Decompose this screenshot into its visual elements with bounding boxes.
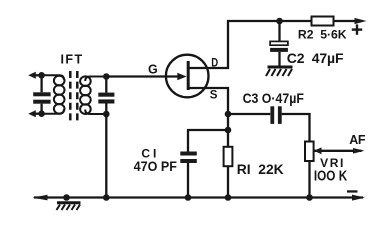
svg-text:R2 5·6K: R2 5·6K — [298, 28, 347, 42]
wire: gate wire — [106, 75, 178, 77]
node: drain rail / C2 junction — [276, 18, 283, 25]
resistor R1 — [224, 147, 233, 166]
input terminal arrow (bottom) — [28, 110, 42, 117]
IFT primary tuning capacitor — [33, 75, 50, 113]
svg-text:IOO K: IOO K — [314, 168, 348, 184]
potentiometer VR1 — [305, 142, 314, 198]
node (secondary bottom) — [103, 111, 110, 118]
node (primary top) — [38, 72, 45, 79]
svg-text:47O PF: 47O PF — [134, 158, 178, 174]
svg-text:RI 22K: RI 22K — [237, 161, 284, 177]
IFT secondary coil — [80, 76, 106, 114]
capacitor C1 — [180, 130, 228, 198]
node: rail / R1 — [225, 194, 232, 201]
wiper arm with arrow — [314, 147, 365, 154]
rail arrow (left) — [33, 195, 48, 201]
node: source riser / C1 junction — [225, 127, 232, 134]
wire: drain lead and riser to supply rail — [189, 21, 358, 68]
IFT core — [70, 71, 77, 122]
svg-text:C3 O·47µF: C3 O·47µF — [243, 90, 305, 106]
IFT secondary tuning capacitor — [98, 77, 114, 115]
node (primary bottom) — [38, 110, 45, 117]
transistor TR1 (JFET) — [166, 55, 209, 98]
input terminal arrow (top) — [28, 72, 42, 79]
capacitor C3 — [228, 106, 310, 141]
ground rail wire — [34, 196, 363, 198]
resistor R2 — [312, 17, 334, 26]
svg-text:G: G — [148, 62, 158, 76]
node: rail / C1 — [185, 194, 192, 201]
capacitor C2 — [270, 21, 288, 67]
svg-text:C2 47µF: C2 47µF — [287, 50, 344, 66]
rail arrow (right) — [352, 195, 365, 201]
IFT primary coil — [42, 75, 65, 113]
node (secondary top) — [103, 73, 110, 80]
svg-text:IFT: IFT — [61, 52, 83, 66]
plus sign — [352, 24, 362, 34]
svg-text:D: D — [211, 56, 218, 70]
node: rail / ground — [63, 194, 70, 201]
minus label — [347, 190, 358, 192]
svg-text:S: S — [210, 89, 218, 101]
wire: secondary bottom to ground rail — [105, 114, 107, 198]
wire: source lead and riser down to rail — [189, 88, 228, 198]
node: rail / VR1 — [306, 194, 313, 201]
node: rail / secondary — [103, 194, 110, 201]
node: source riser / C3 junction — [225, 111, 232, 118]
ground (rail, bottom left) — [57, 203, 81, 210]
supply arrow (+) — [355, 18, 367, 24]
ground (below C2) — [266, 67, 293, 76]
svg-text:AF: AF — [349, 133, 366, 147]
